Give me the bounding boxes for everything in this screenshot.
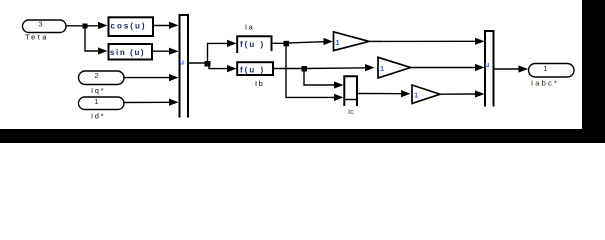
input port 3 (Teta) — [23, 20, 67, 33]
svg-text:3: 3 — [38, 20, 42, 29]
wire branch down to f(u) Ib — [209, 63, 227, 69]
wire Ic block to Gain3 — [358, 93, 403, 95]
svg-text:f(u ): f(u ) — [240, 66, 265, 75]
output port 1 (Iabc*) — [529, 64, 575, 78]
input port 2 (Iq*) — [79, 71, 125, 85]
svg-text:Iabc*: Iabc* — [531, 79, 559, 88]
wire Mux2 to output port — [495, 68, 520, 70]
wire Mux1 output to branch — [189, 62, 209, 64]
black bottom margin bar — [0, 129, 605, 143]
Fcn block f(u) (Ia) : open bottom — [237, 36, 271, 52]
wire cos(u) to Mux1 — [153, 25, 169, 27]
wire branch to cos(u) — [85, 25, 99, 27]
wire Iq* to Mux1 — [124, 77, 169, 79]
black right margin bar — [582, 0, 605, 143]
junction dot Mux1 output — [205, 61, 211, 67]
wire Teta to branch — [66, 25, 85, 27]
Gain1 triangle — [334, 32, 370, 51]
Fcn block f(u) (Ib) — [237, 62, 273, 75]
junction dot f(u) Ib output — [302, 66, 308, 72]
canvas background — [0, 0, 605, 143]
wire Gain2 to Mux2 — [411, 67, 476, 69]
svg-text:u: u — [485, 60, 490, 69]
svg-text:1: 1 — [380, 64, 384, 73]
wire f(u) Ia to Gain1 — [272, 42, 325, 44]
wire f(u) Ib branch down to Ic block upper input — [304, 69, 334, 86]
svg-text:1: 1 — [414, 91, 418, 100]
svg-text:sin (u): sin (u) — [110, 48, 145, 57]
junction dot Teta branch — [83, 24, 88, 29]
svg-text:Id*: Id* — [91, 112, 105, 121]
Gain2 triangle — [378, 57, 411, 78]
wire f(u) Ia branch down to Ic block lower input — [286, 43, 334, 97]
wire sin(u) to Mux1 — [152, 50, 169, 52]
svg-text:cos(u): cos(u) — [111, 22, 147, 31]
Ic block (mux) — [344, 76, 357, 105]
svg-text:Ib: Ib — [255, 79, 264, 88]
Gain3 triangle — [412, 85, 440, 104]
input port 1 (Id*) — [79, 97, 125, 110]
Fcn block cos(u) — [109, 17, 154, 36]
wire branch up to f(u) Ia — [208, 43, 228, 63]
svg-text:2: 2 — [94, 71, 98, 80]
wire Gain1 to Mux2 — [369, 40, 475, 42]
svg-text:f(u ): f(u ) — [240, 40, 265, 49]
svg-text:u: u — [180, 58, 185, 67]
svg-text:Ia: Ia — [245, 22, 254, 31]
Mux2 — [485, 31, 494, 106]
svg-text:Teta: Teta — [25, 33, 49, 42]
junction dot f(u) Ia output — [284, 41, 290, 47]
svg-text:Ic: Ic — [348, 107, 354, 116]
wire Id* to Mux1 — [124, 101, 169, 103]
wire f(u) Ib to Gain2 — [273, 67, 369, 70]
svg-text:1: 1 — [543, 64, 547, 73]
svg-text:1: 1 — [94, 97, 98, 106]
wire Gain3 to Mux2 — [440, 93, 475, 95]
Mux1 — [180, 15, 189, 117]
Fcn block sin(u) — [109, 44, 153, 60]
svg-text:1: 1 — [336, 38, 340, 47]
svg-text:Iq*: Iq* — [91, 86, 105, 95]
wire branch down to sin(u) — [85, 26, 99, 51]
